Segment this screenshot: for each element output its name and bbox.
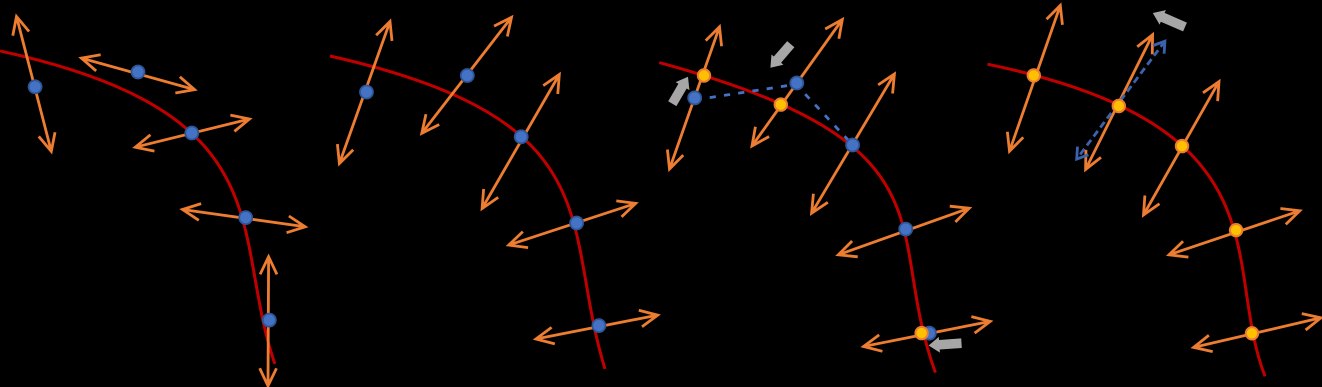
tangent arrow A2 panel 4: [1086, 35, 1153, 170]
tangent arrow A5 panel 4: [1194, 318, 1321, 348]
tangent arrow A3 panel 3: [812, 74, 895, 213]
point P5 panel 1: [263, 314, 276, 327]
point P1 panel 1: [29, 80, 42, 93]
point P3 panel 2: [515, 130, 528, 143]
projected point Q2 panel 3: [775, 98, 787, 110]
tangent arrow A5 panel 3: [864, 321, 991, 346]
old point P5 panel 3: [923, 327, 936, 340]
point P5 panel 2: [592, 319, 605, 332]
point P1 panel 4: [1028, 69, 1040, 81]
tangent arrow A1 panel 2: [339, 22, 390, 164]
curve panel 3: [659, 63, 935, 373]
point P1 panel 2: [360, 86, 373, 99]
point P2 panel 2: [461, 69, 474, 82]
tangent arrow A5 panel 2: [536, 315, 658, 339]
old point P1 panel 3: [688, 91, 701, 104]
tangent arrow A1 panel 4: [1010, 5, 1061, 151]
old point P2 panel 3: [790, 77, 803, 90]
tangent arrow A4 panel 1: [183, 210, 306, 227]
point P5 panel 4: [1246, 327, 1258, 339]
tangent arrow A1 panel 3: [670, 27, 720, 169]
tangent arrow A1 panel 1: [17, 17, 52, 152]
point P4 panel 3: [899, 223, 912, 236]
tangent arrow A5 panel 1: [267, 257, 270, 386]
tangent arrow A3 panel 2: [482, 75, 559, 209]
point P4 panel 2: [570, 217, 583, 230]
correspondence dashed line P1-P2 panel 3: [696, 84, 853, 145]
projected point Q1 panel 3: [698, 69, 710, 81]
tangent arrow A2 panel 2: [422, 17, 512, 133]
projected point Q5 panel 3: [915, 327, 927, 339]
tangent arrow A4 panel 4: [1169, 211, 1300, 255]
tangent arrow A2 panel 1: [81, 58, 194, 90]
point P4 panel 1: [239, 211, 252, 224]
point P3 panel 4: [1176, 140, 1188, 152]
tangent arrow A4 panel 2: [509, 203, 636, 245]
tangent arrow A4 panel 3: [838, 208, 969, 255]
gray move arrow G2 panel 3: [770, 41, 794, 68]
old tangent dashed blue arrow panel 4: [1077, 41, 1165, 159]
gray move arrow G4 panel 4: [1153, 10, 1187, 31]
gray move arrow G1 panel 3: [668, 77, 689, 106]
tangent arrow A3 panel 1: [135, 119, 249, 147]
tangent arrow A3 panel 4: [1144, 82, 1220, 215]
curve panel 1: [0, 51, 275, 364]
point P2 panel 4: [1113, 100, 1125, 112]
point P3 panel 3: [846, 139, 859, 152]
point P4 panel 4: [1230, 224, 1242, 236]
point P2 panel 1: [132, 66, 145, 79]
point P3 panel 1: [185, 127, 198, 140]
curve panel 4: [988, 64, 1266, 376]
curve panel 2: [330, 56, 605, 369]
gray move arrow G3 panel 3: [929, 337, 962, 353]
tangent arrow A2 panel 3: [752, 20, 842, 147]
